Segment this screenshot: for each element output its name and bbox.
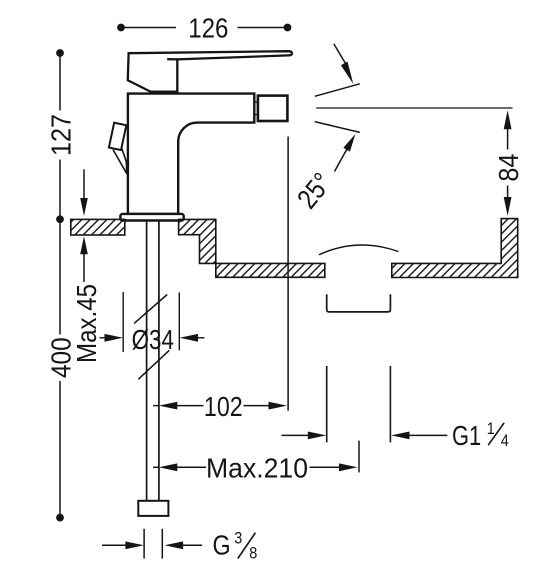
svg-text:G1: G1: [452, 420, 481, 451]
drain dimension arrows: [282, 432, 448, 440]
svg-text:25°: 25°: [290, 166, 338, 214]
dimension 126 top: [117, 24, 291, 32]
bidet deck hatched right section: [392, 219, 518, 278]
dimension Max.45: [80, 169, 88, 282]
label G1 1/4: [452, 420, 509, 452]
pop-up rod: [113, 148, 129, 176]
dimension Max.210: [153, 463, 357, 471]
svg-text:Max.210: Max.210: [206, 452, 308, 484]
dimension 102: [153, 402, 287, 410]
svg-text:3: 3: [234, 530, 242, 548]
svg-text:8: 8: [249, 545, 257, 563]
dimension 127 left: [56, 49, 64, 223]
upper leader arrow: [334, 44, 354, 84]
basin arc: [319, 245, 399, 255]
base flange: [120, 214, 183, 221]
bidet deck hatched left section: [179, 219, 325, 277]
drain bracket: [327, 294, 391, 312]
pop-up rod knob: [109, 123, 126, 150]
dimension 400 left: [56, 219, 64, 521]
spout axis reference line: [316, 107, 512, 109]
spray angle fan lines: [315, 84, 360, 133]
svg-text:126: 126: [188, 12, 228, 44]
svg-text:Ø34: Ø34: [132, 325, 174, 356]
svg-text:1: 1: [487, 420, 495, 438]
lower leader arrow: [335, 134, 356, 172]
Max.210 right extension line: [358, 441, 360, 473]
label G 3/8: [213, 530, 258, 563]
svg-text:84: 84: [493, 153, 525, 181]
svg-text:Max.45: Max.45: [70, 284, 102, 363]
dimension G 3/8: [102, 529, 202, 559]
faucet handle lever and block: [128, 51, 292, 91]
supply pipes: [147, 221, 159, 501]
cartridge dark base line: [150, 91, 178, 95]
svg-text:127: 127: [45, 114, 77, 156]
dimension 84: [504, 110, 512, 216]
bottom nut: [138, 501, 168, 516]
spout neck ticks: [254, 102, 258, 115]
faucet body and spout: [128, 94, 254, 214]
aerator extension line: [287, 137, 289, 411]
svg-text:102: 102: [204, 392, 243, 422]
aerator: [258, 96, 288, 121]
countertop left slab hatched: [71, 219, 125, 235]
svg-text:4: 4: [501, 432, 509, 450]
pipe break marks: [134, 295, 169, 380]
dimension diameter 34: [100, 292, 205, 352]
drain extension lines: [327, 366, 391, 442]
svg-text:G: G: [213, 531, 231, 561]
